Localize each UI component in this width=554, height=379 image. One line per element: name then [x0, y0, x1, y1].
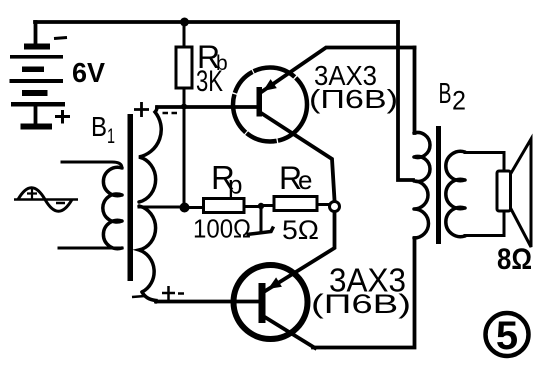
ground tap between Rp and Re — [247, 203, 274, 235]
resistor Re — [264, 160, 330, 245]
figure number 5 — [486, 313, 529, 358]
wire junction down to Q2 emitter — [266, 212, 335, 291]
wire top rail to B2 center tap — [398, 22, 413, 180]
wire B1 center tap to Rp — [139, 206, 180, 209]
svg-text:6V: 6V — [72, 57, 105, 88]
node minus/plus marks B1 bottom — [132, 286, 184, 300]
transformer B1 primary winding — [59, 162, 122, 249]
speaker — [497, 139, 532, 276]
wire top rail — [35, 20, 398, 24]
transistor Q2 (bottom) — [234, 265, 316, 348]
resistor Rb — [176, 22, 228, 207]
svg-text:2: 2 — [452, 86, 466, 116]
wire emitter top to B2 — [413, 48, 417, 134]
battery 6V — [10, 22, 106, 130]
svg-text:5Ω: 5Ω — [282, 215, 319, 245]
transformer B2 primary winding — [414, 133, 430, 239]
node open circle junction — [330, 202, 340, 212]
svg-text:e: e — [298, 165, 312, 195]
transistor Q1 (top) — [233, 48, 415, 201]
svg-text:8Ω: 8Ω — [497, 243, 532, 276]
node junction top rail — [180, 18, 189, 27]
wire B1 bottom to base of bottom transistor — [156, 300, 259, 304]
wire B2 secondary to speaker — [465, 153, 504, 236]
svg-text:5: 5 — [496, 314, 518, 358]
node plus mark B1 top — [134, 102, 149, 117]
transformer B1 secondary winding — [139, 107, 161, 302]
svg-text:1: 1 — [107, 125, 115, 148]
node base/Rb junction — [181, 104, 187, 110]
wire dashed polarity mark — [163, 112, 181, 115]
AC source sine symbol — [14, 188, 78, 212]
transformer B1 core — [128, 114, 134, 281]
svg-text:(П6В): (П6В) — [309, 84, 398, 114]
transformer B2 core — [436, 126, 441, 244]
wire Q2 collector to B2 — [313, 238, 415, 348]
resistor Rp — [180, 159, 259, 244]
svg-text:B: B — [91, 111, 107, 142]
svg-text:B: B — [439, 78, 452, 110]
svg-text:(П6В): (П6В) — [311, 289, 411, 319]
svg-text:3K: 3K — [196, 65, 223, 98]
svg-text:p: p — [228, 170, 242, 200]
wire base of top transistor — [157, 105, 257, 109]
transformer B2 secondary winding — [446, 151, 465, 236]
svg-text:100Ω: 100Ω — [193, 214, 251, 244]
